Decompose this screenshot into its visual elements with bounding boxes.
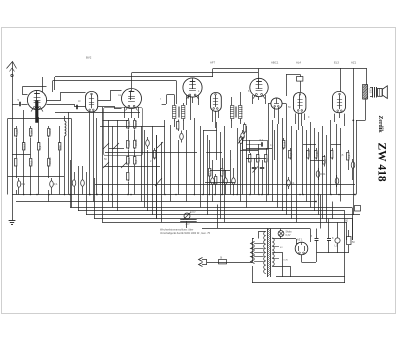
svg-text:0,35: 0,35 bbox=[315, 151, 319, 157]
power transformer core bbox=[267, 229, 269, 278]
capacitor C1 bbox=[17, 181, 21, 187]
wire stair line 1 bbox=[70, 207, 352, 209]
resistor R3 bbox=[30, 126, 32, 128]
svg-text:5000: 5000 bbox=[134, 120, 138, 126]
svg-text:4: 4 bbox=[198, 90, 200, 93]
voltage selector switch bbox=[184, 213, 190, 219]
wire V6 pins bbox=[252, 95, 254, 104]
wire h4 bbox=[109, 148, 124, 150]
svg-text:0,01: 0,01 bbox=[320, 172, 326, 176]
svg-text:6250: 6250 bbox=[190, 211, 196, 214]
wire h1 bbox=[12, 154, 31, 156]
resistor R13 bbox=[134, 138, 136, 140]
capacitor C9 bbox=[224, 178, 228, 184]
tube V4 IF amp bbox=[183, 78, 202, 97]
wire tube1 plate up bbox=[42, 77, 44, 92]
wire top bus left bbox=[55, 76, 213, 78]
resistor R7 bbox=[16, 156, 18, 158]
resistor R23 bbox=[250, 153, 252, 155]
wire V5 pins bbox=[212, 111, 214, 122]
resistor R5 bbox=[48, 126, 50, 128]
wire to V4 bbox=[167, 94, 175, 96]
svg-text:6,3V: 6,3V bbox=[286, 234, 291, 237]
svg-text:0,1: 0,1 bbox=[270, 144, 274, 147]
wire rectifier out bbox=[301, 255, 303, 262]
wire col e bbox=[48, 138, 50, 156]
tube V7 duo diode bbox=[271, 98, 282, 109]
svg-text:100: 100 bbox=[29, 130, 33, 135]
svg-text:AZ 1: AZ 1 bbox=[297, 238, 303, 242]
wire secondary top bus bbox=[53, 80, 176, 82]
resistor R19 bbox=[244, 123, 246, 125]
capacitor C20 bbox=[261, 142, 263, 146]
wire h y148b bbox=[246, 148, 272, 150]
switch arrow S2 bbox=[155, 178, 162, 186]
wire h y183 bbox=[205, 182, 235, 184]
svg-text:0,1: 0,1 bbox=[38, 145, 42, 149]
svg-text:0,1: 0,1 bbox=[347, 154, 351, 158]
resistor R10 bbox=[128, 118, 130, 120]
wire tube1 to V2 bbox=[47, 93, 86, 101]
wire h y127 bbox=[100, 126, 165, 128]
IF transformer T1 bbox=[173, 106, 176, 119]
trimmer arrow 3 bbox=[157, 142, 163, 148]
svg-text:8: 8 bbox=[311, 235, 313, 238]
svg-text:9: 9 bbox=[308, 116, 310, 119]
capacitor C15 bbox=[335, 178, 339, 184]
resistor R12 bbox=[128, 138, 130, 140]
capacitor C7 bbox=[241, 133, 245, 139]
svg-text:0,05: 0,05 bbox=[127, 121, 131, 127]
wire misc verticals bbox=[156, 135, 158, 219]
wire speaker leads bbox=[370, 87, 373, 89]
svg-text:0,3: 0,3 bbox=[289, 152, 293, 156]
wire V9 pins bbox=[334, 114, 336, 122]
stair left end verticals bbox=[70, 160, 72, 208]
capacitor C8 bbox=[211, 178, 215, 184]
svg-text:EL3: EL3 bbox=[334, 61, 339, 65]
wire h3 bbox=[103, 120, 128, 122]
wire avc rails bbox=[237, 128, 239, 195]
svg-text:150: 150 bbox=[323, 159, 327, 164]
svg-text:0,1: 0,1 bbox=[208, 170, 212, 174]
capacitor C5 bbox=[146, 140, 150, 146]
capacitor C17 electrolytic bbox=[327, 238, 331, 240]
capacitor C6 bbox=[180, 133, 184, 139]
wire stair line 3 bbox=[86, 214, 360, 216]
resistor R2 bbox=[23, 141, 25, 143]
wire IFT1 leads bbox=[174, 95, 176, 103]
wire IFT2 leads bbox=[231, 97, 233, 103]
wire h2 bbox=[8, 176, 64, 178]
wire osc box bbox=[104, 108, 143, 156]
stair right end verticals bbox=[352, 208, 354, 241]
svg-text:0,2: 0,2 bbox=[134, 159, 138, 163]
resistor R25 bbox=[266, 153, 268, 155]
wire out rails bbox=[302, 126, 304, 195]
wire h y113 bbox=[55, 112, 140, 114]
detector box bbox=[243, 141, 268, 150]
wire det rails bbox=[203, 130, 205, 195]
secondary leads bbox=[272, 238, 296, 240]
svg-text:10000: 10000 bbox=[134, 139, 138, 147]
svg-text:Vorschaltgerät Zerdik NWA 1000: Vorschaltgerät Zerdik NWA 1000 W., Gen. … bbox=[160, 232, 211, 235]
wire bus 2 bbox=[16, 201, 316, 203]
wire tube4 pins bbox=[186, 96, 188, 106]
wire bottom rail bbox=[252, 282, 345, 284]
wire V7 links bbox=[268, 103, 271, 105]
wire right drop to V9 top bbox=[340, 68, 342, 92]
capacitor C4 bbox=[76, 105, 78, 109]
svg-text:0,3: 0,3 bbox=[29, 160, 33, 164]
wire V2 out bbox=[98, 91, 122, 101]
wire h y170 bbox=[210, 170, 230, 172]
wire avc h links bbox=[240, 150, 258, 152]
wire h y185 long bbox=[95, 184, 355, 186]
svg-text:50: 50 bbox=[288, 106, 291, 109]
svg-text:0,1: 0,1 bbox=[260, 138, 264, 142]
wire h y153 bbox=[105, 152, 197, 154]
svg-text:8: 8 bbox=[248, 90, 250, 93]
svg-text:AF7: AF7 bbox=[210, 61, 216, 65]
capacitor C11 bbox=[252, 167, 256, 169]
junction dots on buses bbox=[23, 194, 25, 196]
svg-text:f: f bbox=[160, 98, 161, 101]
capacitor C12 bbox=[260, 167, 264, 169]
resistor R26 bbox=[283, 138, 285, 140]
svg-text:6,3V: 6,3V bbox=[284, 260, 289, 262]
wire lamp leads bbox=[280, 229, 282, 231]
resistor R30 bbox=[324, 155, 326, 157]
resistor R18 bbox=[178, 120, 180, 122]
resistor R14 bbox=[128, 155, 130, 157]
svg-text:1000: 1000 bbox=[368, 88, 370, 94]
wire stair line 2 bbox=[78, 210, 345, 212]
resistor R28 bbox=[308, 148, 310, 150]
svg-text:50: 50 bbox=[352, 241, 355, 244]
svg-text:4V: 4V bbox=[280, 247, 283, 249]
wire tube1 grid loop bbox=[23, 87, 28, 95]
mains plug prongs bbox=[199, 258, 203, 262]
wire col g bbox=[68, 112, 70, 195]
resistor R8 bbox=[30, 156, 32, 158]
wire h y167 bbox=[104, 166, 161, 168]
IF rails mid bbox=[164, 120, 166, 195]
mixer right rails bbox=[141, 126, 143, 202]
ground symbol bbox=[12, 195, 14, 216]
wire h y158b bbox=[246, 158, 266, 160]
svg-text:BV2: BV2 bbox=[86, 56, 92, 60]
resistor R1 bbox=[16, 126, 18, 128]
resistor R29 bbox=[316, 148, 318, 150]
svg-text:1 M: 1 M bbox=[257, 157, 261, 161]
svg-text:1: 1 bbox=[230, 158, 232, 161]
fuse F1 bbox=[219, 260, 227, 264]
wire col a bbox=[16, 138, 18, 156]
tube V3 AF7 mixer bbox=[122, 89, 142, 109]
wire V2 bottom pins bbox=[89, 112, 91, 194]
tube V5 small oval bbox=[211, 93, 222, 112]
wire V8 pins bbox=[295, 114, 297, 125]
resistor R15 bbox=[134, 155, 136, 157]
svg-text:5000: 5000 bbox=[127, 140, 131, 146]
wire V8 cap lead bbox=[286, 74, 300, 76]
resistor R32 bleeder bbox=[347, 237, 352, 245]
capacitor C16 electrolytic bbox=[315, 238, 319, 240]
wire det h bbox=[203, 130, 217, 132]
svg-text:1F: 1F bbox=[78, 100, 81, 103]
power transformer secondary bbox=[272, 238, 274, 266]
trimmer arrow 4 bbox=[103, 162, 109, 168]
mixer stage rails bbox=[102, 107, 104, 195]
speaker LS bbox=[372, 87, 374, 98]
capacitor C10 bbox=[232, 178, 236, 184]
svg-text:50: 50 bbox=[104, 158, 107, 161]
wire speaker drop bbox=[356, 120, 366, 122]
svg-text:Zerdik: Zerdik bbox=[377, 116, 383, 134]
wire selector drop bbox=[186, 221, 188, 228]
resistor R16 bbox=[128, 170, 130, 172]
svg-text:Si: Si bbox=[220, 257, 223, 260]
resistor R17 bbox=[154, 148, 156, 150]
capacitor C2 bbox=[50, 181, 54, 187]
svg-text:30000: 30000 bbox=[48, 157, 52, 165]
capacitor C19 bbox=[81, 180, 85, 186]
wire psu links bbox=[316, 229, 318, 234]
wire top bus right bbox=[213, 68, 367, 70]
capacitor C18 bbox=[72, 180, 76, 186]
wire out h links bbox=[303, 144, 316, 146]
resistor R20 bbox=[209, 166, 211, 168]
power transformer primary bbox=[264, 232, 266, 274]
wire stair line 5 bbox=[102, 222, 347, 224]
resistor R9 bbox=[48, 156, 50, 158]
svg-text:0,05: 0,05 bbox=[15, 129, 19, 135]
tube V6 bbox=[250, 78, 268, 96]
tube V2 band filter bbox=[86, 92, 98, 112]
wire col ends bbox=[16, 168, 18, 179]
wire mains up bbox=[217, 205, 219, 229]
wire chassis bus bbox=[12, 194, 355, 196]
svg-text:0,5: 0,5 bbox=[340, 154, 344, 157]
svg-text:8: 8 bbox=[332, 237, 334, 240]
wire heater rail bbox=[282, 252, 284, 277]
wire stair line 4 bbox=[94, 218, 353, 220]
capacitor C14 bbox=[316, 171, 320, 177]
tube V9 output AL4 bbox=[333, 92, 346, 113]
capacitor C13 bbox=[287, 180, 291, 186]
wire mixer col joins bbox=[128, 130, 130, 138]
wire right drop x353 bbox=[353, 68, 355, 215]
svg-text:AL4: AL4 bbox=[296, 61, 301, 65]
svg-text:300: 300 bbox=[58, 145, 62, 150]
svg-text:Wechselstromanschluss: über: Wechselstromanschluss: über bbox=[160, 229, 193, 232]
svg-text:3000: 3000 bbox=[127, 157, 131, 163]
output transformer field coil bbox=[363, 85, 368, 100]
wire col b bbox=[23, 110, 25, 141]
primary tap wires bbox=[254, 243, 264, 245]
choke LG bbox=[335, 238, 340, 243]
svg-text:1 M: 1 M bbox=[282, 142, 286, 146]
wire af rails bbox=[268, 112, 270, 195]
resistor R11 bbox=[134, 118, 136, 120]
antenna bbox=[12, 62, 14, 195]
svg-text:0,1: 0,1 bbox=[54, 182, 58, 186]
trimmer arrow 2 bbox=[113, 143, 119, 149]
resistor R6 bbox=[59, 141, 61, 143]
wire col c bbox=[30, 138, 32, 156]
svg-text:5000: 5000 bbox=[48, 128, 52, 134]
rectifier tube V10 bbox=[295, 242, 308, 255]
input stage box bbox=[7, 119, 9, 195]
secondary stub leads bbox=[272, 246, 279, 248]
resistor R21 bbox=[215, 174, 217, 176]
resistor R31 bbox=[332, 148, 334, 150]
svg-text:5: 5 bbox=[18, 98, 20, 102]
output cluster 2 bbox=[348, 150, 350, 152]
trimmer arrow 5 bbox=[121, 162, 127, 168]
resistor R4 bbox=[38, 141, 40, 143]
wire col d bbox=[38, 117, 40, 141]
dial lamp bbox=[278, 231, 284, 237]
svg-text:ZW 418: ZW 418 bbox=[376, 143, 388, 182]
switch arrow S1 bbox=[253, 167, 259, 173]
wire mains lead bbox=[207, 262, 252, 264]
resistor R27 bbox=[290, 148, 292, 150]
tone box TO bbox=[355, 206, 361, 212]
svg-text:0,1: 0,1 bbox=[249, 157, 253, 161]
svg-text:AZ1: AZ1 bbox=[351, 61, 357, 65]
svg-text:2: 2 bbox=[150, 160, 152, 163]
wire col f bbox=[59, 126, 61, 141]
tube V1 AK2 bbox=[27, 90, 46, 109]
tube V8 AF pentode with top cap bbox=[294, 93, 306, 114]
svg-text:ABC1: ABC1 bbox=[271, 61, 279, 65]
tube V1 shield stem bbox=[36, 101, 39, 123]
volume pot bbox=[239, 137, 243, 144]
wire top link tube3 bbox=[132, 72, 259, 74]
wire primary top bbox=[259, 232, 266, 239]
svg-text:5000: 5000 bbox=[23, 143, 27, 149]
wire input coupling bbox=[12, 104, 19, 106]
svg-text:350: 350 bbox=[344, 220, 349, 223]
wire top supply rail bbox=[202, 228, 310, 230]
wire tube3 pins down bbox=[124, 107, 126, 118]
trimmer arrow 1 bbox=[103, 143, 109, 149]
svg-text:50000: 50000 bbox=[307, 149, 311, 157]
antenna coil bbox=[65, 121, 67, 136]
IF transformer T2 bbox=[231, 106, 234, 119]
resistor R22 bbox=[222, 166, 224, 168]
resistor R24 bbox=[258, 153, 260, 155]
